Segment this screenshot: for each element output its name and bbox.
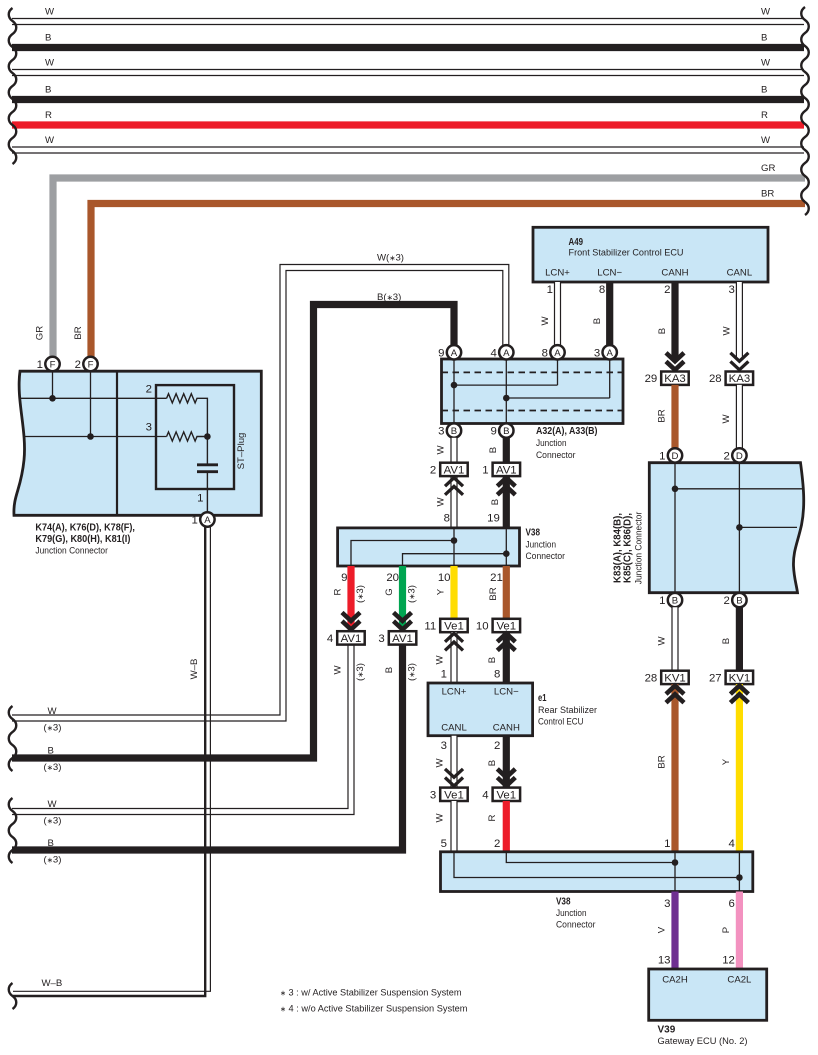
svg-text:(∗3): (∗3) (407, 585, 418, 603)
left break W-B (9, 983, 17, 1009)
internal wire 1(D)-1(B) (674, 463, 676, 593)
resistor upper ST-Plug (167, 394, 208, 437)
svg-text:W(∗3): W(∗3) (377, 252, 404, 263)
wire R(*3) V38 to 4 AV1 (347, 566, 354, 630)
internal wire pin4-pin6 V38 bottom (738, 852, 740, 892)
wire W CANL to 3 Ve1 (450, 736, 457, 788)
svg-text:BR: BR (657, 409, 668, 422)
svg-text:W: W (45, 135, 55, 146)
internal wire pin1-pin3 V38 bottom (674, 852, 676, 892)
terminal 3(A) (603, 345, 617, 359)
svg-text:28: 28 (645, 672, 658, 684)
internal bus row 1 A32 (454, 384, 558, 386)
svg-text:B: B (761, 32, 767, 43)
capacitor lead to 1(A) (206, 473, 208, 513)
svg-text:3: 3 (441, 740, 447, 752)
svg-text:AV1: AV1 (444, 464, 465, 476)
svg-text:V38: V38 (556, 897, 571, 908)
svg-text:K79(G), K80(H), K81(I): K79(G), K80(H), K81(I) (35, 534, 130, 545)
svg-text:G: G (384, 588, 395, 595)
svg-text:W: W (48, 706, 58, 717)
svg-text:2: 2 (494, 838, 500, 850)
svg-text:1: 1 (441, 669, 447, 681)
terminal 1(D) (668, 448, 682, 462)
svg-text:B: B (592, 318, 603, 324)
wire B CANH to 4 Ve1 (503, 736, 510, 788)
svg-text:A: A (554, 348, 561, 359)
dashed separator lower A32 (442, 410, 624, 412)
svg-text:R: R (333, 588, 344, 595)
svg-text:(∗3): (∗3) (44, 855, 62, 866)
internal wire 3(A) stub (609, 359, 611, 398)
svg-text:F: F (88, 360, 94, 371)
junction dot row 2 (49, 395, 56, 402)
internal wire 9(A)-3(B) (453, 359, 455, 424)
connector 29 KA3 (661, 372, 689, 385)
svg-text:LCN+: LCN+ (545, 267, 570, 278)
wire W 11 Ve1 to LCN+ e1 (450, 632, 457, 683)
svg-text:Connector: Connector (536, 450, 576, 461)
internal wire pin19 to pin20 V38 (403, 528, 507, 566)
svg-text:Rear Stabilizer: Rear Stabilizer (538, 705, 598, 716)
internal wire pin19 to pin21 V38 (505, 554, 507, 566)
svg-text:B: B (487, 760, 498, 766)
svg-text:4: 4 (490, 347, 496, 359)
svg-text:V38: V38 (526, 528, 541, 539)
svg-text:W: W (333, 665, 344, 675)
svg-text:2: 2 (664, 284, 670, 296)
svg-text:B: B (503, 426, 509, 437)
junction dot V38 bottom left (672, 859, 679, 866)
svg-text:W: W (436, 497, 447, 507)
svg-text:LCN−: LCN− (597, 267, 622, 278)
svg-text:3: 3 (664, 898, 670, 910)
svg-text:10: 10 (476, 621, 489, 633)
svg-text:ST–Plug: ST–Plug (236, 433, 247, 470)
internal wire 8(A) stub (557, 359, 559, 385)
svg-text:BR: BR (761, 188, 774, 199)
svg-text:1: 1 (659, 595, 665, 607)
svg-text:4: 4 (729, 838, 735, 850)
svg-text:Control ECU: Control ECU (538, 717, 584, 728)
terminal 3(B) (447, 423, 461, 437)
internal wire pin5 to pin6 V38 bottom (454, 852, 739, 878)
left break W/B (*3) pair 1 (9, 706, 17, 771)
junction connector V38 (middle) body (338, 528, 520, 566)
terminal 1(F) (45, 357, 59, 371)
terminal 4(A) (499, 345, 513, 359)
svg-text:Junction Connector: Junction Connector (634, 511, 645, 584)
svg-text:W: W (435, 655, 446, 665)
svg-text:W: W (761, 57, 771, 68)
arrow below 27 KV1 (730, 686, 748, 694)
junction dot V38 pin19 (503, 550, 510, 557)
wire B 1 AV1 to V38 pin 19 (503, 476, 510, 528)
arrow into 4 AV1 (342, 613, 360, 621)
svg-text:A: A (451, 348, 458, 359)
terminal 2(D) (732, 448, 746, 462)
svg-text:(∗3): (∗3) (355, 585, 366, 603)
svg-text:BR: BR (488, 587, 499, 600)
internal stub 2(F) (90, 371, 92, 436)
wire W from LCN+ (554, 282, 561, 345)
svg-text:8: 8 (599, 284, 605, 296)
svg-text:27: 27 (709, 672, 722, 684)
svg-text:CANL: CANL (441, 723, 467, 734)
wire W(*3) to 4 AV1 (12, 645, 351, 812)
svg-text:BR: BR (657, 755, 668, 768)
arrow into 3 AV1 (394, 613, 412, 621)
svg-text:5: 5 (441, 838, 447, 850)
svg-text:A49: A49 (569, 237, 584, 248)
terminal 2(B) (732, 593, 746, 607)
wire W(*3) loop to 4(A) (12, 268, 506, 719)
svg-text:GR: GR (761, 163, 775, 174)
wire B 10 Ve1 to LCN- e1 (503, 632, 510, 683)
terminal 2(F) (83, 357, 97, 371)
svg-text:Junction: Junction (536, 438, 567, 449)
svg-text:3: 3 (438, 426, 444, 438)
internal row pin 2 (19, 397, 167, 399)
internal bus row 2 A32 (506, 397, 609, 399)
svg-text:21: 21 (490, 572, 503, 584)
terminal 9(B) (499, 423, 513, 437)
svg-text:AV1: AV1 (341, 633, 362, 645)
wire W 1(B) to 28 KV1 (671, 607, 678, 670)
wire B bus row 4 (12, 96, 804, 103)
svg-text:D: D (672, 451, 679, 462)
svg-text:W: W (435, 813, 446, 823)
svg-text:W: W (540, 316, 551, 326)
svg-text:W: W (45, 57, 55, 68)
junction dot K83 left (672, 486, 679, 493)
svg-text:1: 1 (547, 284, 553, 296)
svg-text:20: 20 (386, 572, 399, 584)
terminal 1(A) (200, 512, 214, 526)
terminal 8(A) (550, 345, 564, 359)
svg-text:CA2H: CA2H (662, 975, 688, 986)
svg-text:W: W (48, 799, 58, 810)
svg-text:V39: V39 (658, 1025, 676, 1036)
arrow below 11 Ve1 (445, 633, 463, 641)
svg-text:13: 13 (658, 955, 671, 967)
svg-text:K74(A), K76(D), K78(F),: K74(A), K76(D), K78(F), (35, 523, 135, 534)
svg-text:∗ 4 : w/o Active Stabilizer Su: ∗ 4 : w/o Active Stabilizer Suspension S… (280, 1004, 468, 1015)
internal bus from 1(D) (675, 488, 803, 490)
wire R 4 Ve1 to V38 pin 2 (503, 801, 510, 852)
junction dot row 3 (87, 433, 94, 440)
svg-text:LCN+: LCN+ (442, 686, 467, 697)
arrow below 1 AV1 (497, 478, 515, 486)
connector 4 Ve1 (493, 788, 520, 801)
wire BR 28 KV1 to V38 pin 1 (671, 684, 678, 852)
connector 11 Ve1 (440, 619, 468, 632)
svg-text:A: A (204, 515, 211, 526)
svg-text:B: B (451, 426, 457, 437)
wire GR (53, 178, 805, 357)
svg-text:A: A (606, 348, 613, 359)
left break W/B (*3) pair 2 (9, 798, 17, 863)
svg-text:R: R (761, 110, 768, 121)
svg-text:R: R (45, 110, 52, 121)
svg-text:B: B (488, 447, 499, 453)
wire G(*3) V38 to 3 AV1 (399, 566, 406, 630)
internal wire pin8 to pin9 V38 (351, 528, 454, 566)
internal wire pin8 to pin10 V38 (453, 541, 455, 567)
svg-text:Ve1: Ve1 (496, 789, 516, 801)
svg-text:2: 2 (494, 740, 500, 752)
svg-text:KA3: KA3 (664, 373, 686, 385)
svg-text:W: W (657, 636, 668, 646)
wire B 2(B) to 27 KV1 (736, 607, 743, 670)
capacitor ST-Plug (206, 437, 208, 465)
svg-text:D: D (736, 451, 743, 462)
svg-text:2: 2 (724, 595, 730, 607)
svg-text:W: W (721, 326, 732, 336)
svg-text:F: F (50, 360, 56, 371)
wire W KA3 to 2(D) (736, 385, 743, 448)
svg-text:W–B: W–B (42, 978, 63, 989)
svg-text:Junction Connector: Junction Connector (35, 546, 108, 557)
svg-text:Y: Y (436, 588, 447, 595)
junction dot A32 row 2 (503, 395, 510, 402)
wire V to CA2H (671, 892, 678, 970)
arrow below 10 Ve1 (497, 633, 515, 641)
svg-text:12: 12 (722, 955, 735, 967)
svg-text:29: 29 (645, 373, 658, 385)
svg-text:8: 8 (494, 669, 500, 681)
connector 4 AV1 (337, 631, 365, 644)
svg-text:Ve1: Ve1 (444, 621, 464, 633)
wire W from CANL (736, 282, 743, 358)
svg-text:AV1: AV1 (496, 464, 517, 476)
svg-text:2: 2 (146, 384, 152, 396)
divider line K74 box (116, 371, 118, 515)
svg-text:Connector: Connector (556, 920, 596, 931)
svg-text:P: P (721, 927, 732, 933)
wire W bus row 3 (12, 69, 804, 76)
resistor lower ST-Plug (167, 432, 208, 441)
svg-text:B: B (45, 84, 51, 95)
internal stub 1(F) (52, 371, 54, 398)
svg-text:3: 3 (594, 347, 600, 359)
ECU A49 Front Stabilizer Control ECU (533, 227, 768, 282)
svg-text:∗ 3 : w/ Active Stabilizer Sus: ∗ 3 : w/ Active Stabilizer Suspension Sy… (280, 988, 462, 999)
internal wire 4(A)-9(B) (505, 359, 507, 424)
connector 10 Ve1 (493, 619, 520, 632)
svg-text:A: A (503, 348, 510, 359)
svg-text:Junction: Junction (556, 908, 587, 919)
svg-text:9: 9 (341, 572, 347, 584)
wire B from LCN- (606, 282, 613, 345)
svg-text:28: 28 (709, 373, 722, 385)
internal row pin 3 (25, 436, 167, 438)
junction connector V38 (bottom) body (441, 852, 753, 892)
arrow below 28 KV1 (666, 686, 684, 694)
connector 2 AV1 (440, 463, 468, 476)
connector 3 Ve1 (440, 788, 468, 801)
arrow below 2 AV1 (445, 478, 463, 486)
ST-Plug box (156, 385, 234, 489)
wire BR (91, 204, 805, 357)
arrow into 4 Ve1 (497, 769, 515, 777)
svg-text:CA2L: CA2L (727, 975, 752, 986)
svg-text:B: B (672, 596, 678, 607)
wire W 2 AV1 to V38 pin 8 (450, 476, 457, 528)
svg-text:Gateway ECU (No. 2): Gateway ECU (No. 2) (658, 1036, 748, 1047)
svg-text:Front Stabilizer Control ECU: Front Stabilizer Control ECU (569, 248, 684, 259)
svg-text:1: 1 (37, 359, 43, 371)
terminal 1(B) (668, 593, 682, 607)
svg-text:W: W (761, 6, 771, 17)
svg-text:W: W (721, 414, 732, 424)
svg-text:4: 4 (482, 789, 488, 801)
arrow into 29 KA3 (666, 353, 684, 361)
wire BR KA3 to 1(D) (671, 385, 678, 448)
wire BR V38 to 10 Ve1 (503, 566, 510, 619)
wire B 9(B) to 1 AV1 (503, 438, 510, 463)
svg-text:8: 8 (444, 513, 450, 525)
junction dot A32 row 1 (451, 382, 458, 389)
junction dot V38 pin8 (451, 537, 458, 544)
wire W 3 Ve1 to V38 pin 5 (450, 801, 457, 852)
wire B from CANH (671, 282, 678, 358)
wire Y 27 KV1 to V38 pin 4 (736, 684, 743, 852)
svg-text:2: 2 (724, 450, 730, 462)
ECU V39 Gateway ECU (No. 2) (649, 969, 767, 1020)
junction connector K74(A) K76(D) K78(F) K79(G) K80(H) K81(I) body (14, 371, 261, 515)
svg-text:8: 8 (542, 347, 548, 359)
ECU e1 Rear Stabilizer Control ECU (428, 683, 533, 736)
svg-text:B: B (761, 84, 767, 95)
connector 27 KV1 (726, 671, 754, 684)
connector 1 AV1 (493, 463, 520, 476)
svg-text:W: W (45, 6, 55, 17)
svg-text:Y: Y (721, 758, 732, 765)
svg-text:B: B (657, 328, 668, 334)
svg-text:R: R (487, 814, 498, 821)
internal wire pin2 to pin1 V38 bottom (506, 852, 675, 863)
connector 28 KV1 (661, 671, 689, 684)
svg-text:A32(A), A33(B): A32(A), A33(B) (536, 426, 598, 437)
svg-text:4: 4 (327, 633, 333, 645)
svg-text:(∗3): (∗3) (44, 762, 62, 773)
svg-text:1: 1 (664, 838, 670, 850)
svg-text:9: 9 (490, 426, 496, 438)
svg-text:W: W (435, 758, 446, 768)
svg-text:W: W (761, 135, 771, 146)
svg-text:(∗3): (∗3) (407, 663, 418, 681)
svg-text:3: 3 (378, 633, 384, 645)
junction dot V38 bottom right (736, 874, 743, 881)
wire B bus row 2 (12, 44, 804, 51)
svg-text:(∗3): (∗3) (355, 663, 366, 681)
svg-text:B: B (48, 746, 54, 757)
svg-text:10: 10 (438, 572, 451, 584)
arrow into 3 Ve1 (445, 769, 463, 777)
wire W 3(B) to 2 AV1 (450, 438, 457, 463)
svg-text:B: B (721, 638, 732, 644)
svg-text:Connector: Connector (526, 551, 566, 562)
svg-text:Ve1: Ve1 (444, 789, 464, 801)
internal bus from 2(D) (739, 526, 797, 528)
left wire-break edge top (9, 8, 17, 164)
svg-text:CANH: CANH (661, 267, 688, 278)
svg-text:3: 3 (146, 422, 152, 434)
junction connector A32(A) A33(B) body (442, 359, 624, 424)
svg-text:AV1: AV1 (392, 633, 413, 645)
wire P to CA2L (736, 892, 743, 970)
svg-text:(∗3): (∗3) (44, 816, 62, 827)
svg-text:B(∗3): B(∗3) (377, 292, 401, 303)
svg-text:KA3: KA3 (729, 373, 751, 385)
wire B(*3) to 3 AV1 (12, 645, 403, 851)
svg-text:B: B (384, 667, 395, 673)
svg-text:1: 1 (197, 493, 203, 505)
connector 28 KA3 (726, 372, 754, 385)
connector 3 AV1 (389, 631, 417, 644)
svg-text:19: 19 (487, 513, 500, 525)
svg-text:B: B (45, 32, 51, 43)
svg-text:GR: GR (35, 326, 46, 340)
svg-text:9: 9 (438, 347, 444, 359)
svg-text:2: 2 (430, 464, 436, 476)
junction connector K83(A) K84(B) K85(C) K86(D) body (649, 463, 803, 593)
svg-text:11: 11 (424, 621, 436, 633)
svg-text:W–B: W–B (189, 659, 200, 680)
wire W bus row 1 (12, 18, 804, 25)
right wire-break edge (801, 7, 809, 215)
svg-text:1: 1 (192, 515, 198, 527)
svg-text:K85(C), K86(D),: K85(C), K86(D), (623, 513, 634, 583)
svg-text:e1: e1 (538, 693, 547, 704)
wire W bus row 6 (12, 146, 804, 153)
svg-text:B: B (48, 838, 54, 849)
wire R bus row 5 (12, 121, 804, 128)
svg-text:(∗3): (∗3) (44, 723, 62, 734)
svg-text:1: 1 (659, 450, 665, 462)
svg-text:BR: BR (73, 326, 84, 339)
svg-text:CANH: CANH (493, 723, 520, 734)
junction dot K83 right (736, 524, 743, 531)
svg-text:LCN−: LCN− (494, 686, 519, 697)
svg-text:B: B (487, 657, 498, 663)
junction dot ST-Plug (204, 433, 211, 440)
svg-text:V: V (657, 926, 668, 933)
wire W-B from 1(A) to left break (13, 527, 205, 996)
dashed separator upper A32 (442, 371, 624, 373)
internal wire 2(D)-2(B) (738, 463, 740, 593)
svg-text:1: 1 (482, 464, 488, 476)
svg-text:B: B (736, 596, 742, 607)
svg-text:W: W (436, 445, 447, 455)
wire Y V38 to 11 Ve1 (450, 566, 457, 619)
terminal 9(A) (447, 345, 461, 359)
wire B(*3) loop to 9(A) (12, 305, 454, 759)
svg-text:6: 6 (729, 898, 735, 910)
svg-text:3: 3 (430, 789, 436, 801)
svg-text:CANL: CANL (727, 267, 753, 278)
svg-text:3: 3 (729, 284, 735, 296)
svg-text:2: 2 (75, 359, 81, 371)
arrow into 28 KA3 (730, 353, 748, 361)
svg-text:Junction: Junction (526, 540, 557, 551)
svg-text:B: B (490, 499, 501, 505)
